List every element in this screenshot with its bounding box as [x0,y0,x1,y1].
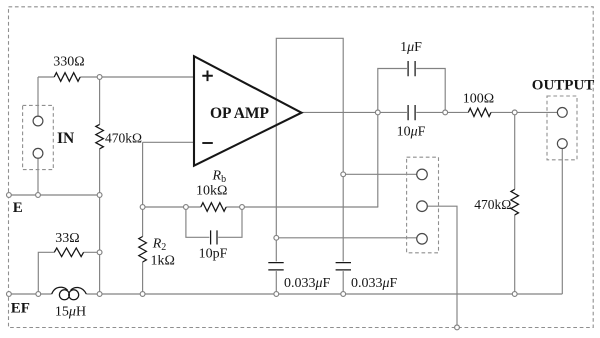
node: Rb rail / 10pF left [184,205,189,210]
svg-text:1μF: 1μF [400,40,422,55]
node: Rb rail left [140,205,145,210]
node: E rail at border [6,193,11,198]
resistor 470k ohm (input) [96,124,104,148]
svg-text:0.033μF: 0.033μF [351,276,398,291]
svg-text:IN: IN [57,130,74,147]
wire: feedback vertical x=377.8 to Rb rail [377,112,379,207]
resistor 330 ohm [54,73,80,82]
capacitor 10uF [408,105,415,120]
svg-text:100Ω: 100Ω [463,92,494,107]
wire: IN top lead vertical x=38 [37,77,39,116]
resistor Rb 10k ohm [201,203,226,212]
node: cap2 bottom on EF [341,292,346,297]
node: 33/15uH right on EF [97,292,102,297]
wire: 1uF loop [378,69,445,113]
svg-text:330Ω: 330Ω [53,55,84,70]
svg-text:10μF: 10μF [397,125,426,140]
terminal: connector pin 2 [417,201,428,212]
wire: vertical x=99.6 from E node down to EF rail [99,195,101,294]
svg-text:33Ω: 33Ω [55,231,79,246]
connector dashed box [407,157,439,253]
wire: node to connector pin3 y=237.8 [276,237,417,239]
wire: +input rail y=77 from IN corner to op-amp [38,76,194,78]
wire: node to connector pin1 y=174.3 [343,173,417,175]
capacitor 10pF [211,230,217,244]
wire: IN bottom lead down to node E rail [37,158,39,195]
node: 330/470k junction [97,75,102,80]
wire: connector pin2 to bottom border terminal [427,206,457,327]
svg-text:15μH: 15μH [55,305,86,320]
svg-text:10kΩ: 10kΩ [196,183,227,198]
svg-text:OUTPUT: OUTPUT [532,78,595,94]
wire: 10pF parallel loop [186,207,242,237]
terminal: OUTPUT jack lower [557,139,567,149]
wire: R2 branch vertical x=142.6 [142,207,144,294]
resistor 100 ohm [468,108,491,116]
node: cap pair right [443,110,448,115]
wire: 33-ohm branch [38,252,99,294]
node: terminal on bottom border [455,325,460,330]
node: 33/15uH left [36,292,41,297]
wire: output rail y=112.4 [302,111,558,113]
wire: cap2 bottom lead [342,271,344,294]
wire: minus input lead [143,142,194,207]
wire: 470k output branch x=514.7 [514,112,516,294]
svg-text:1kΩ: 1kΩ [151,254,175,269]
svg-text:OP AMP: OP AMP [210,105,270,122]
wire: EF bottom rail y=294 [9,293,562,295]
capacitor 1uF [408,61,415,76]
resistor 470k ohm (output) [511,189,519,215]
terminal: IN jack lower [33,148,43,158]
node: R2 bottom on EF [140,292,145,297]
terminal: connector pin 3 [417,234,428,245]
wire: cap1 bottom lead [275,271,277,294]
wire: OUTPUT bottom jack lead x=562.3 [561,149,563,294]
svg-text:470kΩ: 470kΩ [105,131,142,146]
svg-text:EF: EF [11,301,30,317]
wire: op-amp supply rail rectangle [276,38,343,261]
capacitor 0.033uF (right) [336,263,351,270]
node: 470k bottom on EF [512,292,517,297]
OUTPUT jack dashed box [547,96,577,160]
svg-text:0.033μF: 0.033μF [284,276,331,291]
node: output/feedback junction [375,110,380,115]
node: 470k bottom on E rail [97,193,102,198]
node: cap1 bottom on EF [274,292,279,297]
node: Rb rail / 10pF right [240,205,245,210]
svg-text:E: E [13,200,23,216]
node: IN lead on E rail [36,193,41,198]
wire: Rb feedback rail y=207 [143,206,379,208]
terminal: OUTPUT jack upper [557,108,567,118]
terminal: connector pin 1 [417,169,428,180]
node: 100 ohm / 470k top [512,110,517,115]
node: cap1 branch to pin3 [274,235,279,240]
svg-text:10pF: 10pF [199,247,228,262]
node: EF rail at border [6,292,11,297]
op-amp U1 [194,56,302,166]
inductor 15uH [52,287,87,300]
resistor R2 1k ohm [139,237,147,263]
resistor 33 ohm [54,248,83,257]
node: pin1 branch on V+ drop [341,172,346,177]
node: 33 ohm top right [97,250,102,255]
wire: E rail y=195 [9,194,100,196]
terminal: IN jack upper [33,116,43,126]
IN jack dashed box [23,105,54,169]
svg-text:470kΩ: 470kΩ [474,197,511,212]
wire: 470k branch vertical x=99.6 [99,77,101,195]
capacitor 0.033uF (left) [268,263,283,270]
